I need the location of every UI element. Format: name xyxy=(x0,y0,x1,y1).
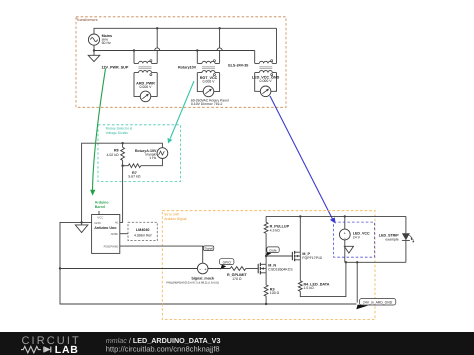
svg-text:24V_to_ARD_GND: 24V_to_ARD_GND xyxy=(363,301,393,305)
resistor R_PULLUP 4.3 kOhm xyxy=(264,216,289,256)
voltage source Signal_mock PWL xyxy=(166,263,219,284)
wire: X2 primary right terminal to top rail (hops over lower rail) xyxy=(217,27,222,63)
svg-text:Barrel: Barrel xyxy=(95,205,105,209)
resistor R4_LED_DATA 1.5 kOhm xyxy=(298,281,329,292)
annotation: green text Arduino Barrel xyxy=(95,201,110,210)
ground at Arduino GND wire xyxy=(75,221,88,232)
IC LM4040 4.096V Ref (dashed) xyxy=(120,222,158,240)
svg-text:1.5 kΩ: 1.5 kΩ xyxy=(304,286,315,290)
svg-text:LAB: LAB xyxy=(55,345,79,355)
svg-text:ELS-24V-35: ELS-24V-35 xyxy=(228,63,248,67)
svg-text:CSD18504KCS: CSD18504KCS xyxy=(268,268,293,272)
wire: X1 primary left terminal to lower rail xyxy=(133,49,135,63)
wire: LED_VCC_GND voltmeter loop on X3 secondary xyxy=(255,73,277,92)
svg-text:Voltage Divider: Voltage Divider xyxy=(106,131,130,135)
svg-text:Arduino Signal: Arduino Signal xyxy=(164,217,186,221)
svg-text:0.000 V: 0.000 V xyxy=(260,79,273,83)
svg-text:GND: GND xyxy=(94,221,100,225)
ground below Mains xyxy=(88,49,100,61)
svg-text:Transformers: Transformers xyxy=(76,18,97,22)
wire: M_P drain to R4_LED_DATA xyxy=(299,260,301,281)
enclosure box: Rotary Selector & Voltage Divider xyxy=(98,125,181,182)
svg-text:4.3 kΩ: 4.3 kΩ xyxy=(270,228,281,232)
wire: X1 primary right terminal to top rail (hops over lower rail) xyxy=(155,27,160,63)
wire: M_P source to 24V rail xyxy=(299,215,301,252)
wire: ROT_VCC voltmeter loop on X2 secondary xyxy=(197,73,219,92)
svg-text:GPIO: GPIO xyxy=(223,260,232,264)
wire: X2 primary left terminal to lower rail xyxy=(196,49,198,63)
enclosure box: 5V to 24V Arduino Signal xyxy=(162,211,375,320)
svg-text:Arduino Uno: Arduino Uno xyxy=(94,226,117,230)
voltage source V_Mains (sine 60 Hz) xyxy=(88,34,112,45)
wire: GND bus branch to Signal_mock xyxy=(60,268,197,270)
wire: Arduino GND to left bus and bottom GND rail xyxy=(59,222,357,305)
wire: ARD_PWR voltmeter loop on X1 secondary xyxy=(134,73,157,97)
svg-text:0.000 V: 0.000 V xyxy=(202,80,215,84)
wire: M_N source to R3 xyxy=(265,273,267,285)
LED D1 LED_STRIP example xyxy=(379,216,415,262)
wire: divider top rail (GND bus up) xyxy=(82,142,163,222)
svg-text:FQPF17P10: FQPF17P10 xyxy=(302,256,322,260)
wire: divider output down to Arduino A0 xyxy=(120,166,123,223)
voltage source LED_VCC 24 V xyxy=(339,215,370,240)
net flag Signal xyxy=(203,246,214,251)
wire: 24V top rail xyxy=(266,215,406,217)
resistor R_GPLIMIT 170 Ohm xyxy=(208,267,258,281)
wire: top AC rail from Mains to transformers xyxy=(94,28,277,34)
ground at LED_VCC minus xyxy=(344,240,353,262)
transformer X2 Rotary10V xyxy=(178,60,220,76)
wire: M_N drain to Gate node xyxy=(265,256,267,264)
voltmeter ARD_PWR 0.000 V xyxy=(136,82,155,102)
svg-text:170 Ω: 170 Ω xyxy=(232,277,242,281)
svg-text:4.096V Ref: 4.096V Ref xyxy=(134,233,152,237)
svg-text:24 V: 24 V xyxy=(353,235,361,239)
wire: lower AC rail from Mains xyxy=(94,45,255,50)
annotation: teal arrow ROT_VCC to RotaryA source xyxy=(168,81,195,144)
svg-text:100 Ω: 100 Ω xyxy=(270,291,280,295)
op-amp/IC U1 Arduino Uno box xyxy=(92,215,120,254)
pin VCC stub (barrel jack) xyxy=(98,211,100,215)
wire: Gate node to M_P gate xyxy=(265,255,293,257)
svg-text:Arduino: Arduino xyxy=(95,201,110,205)
svg-text:0-10V Dimmer 719-2: 0-10V Dimmer 719-2 xyxy=(191,102,223,106)
svg-text:Gate: Gate xyxy=(269,248,276,252)
footer bar xyxy=(0,332,474,355)
svg-text:5.67 kΩ: 5.67 kΩ xyxy=(128,175,141,179)
svg-text:0.000 V: 0.000 V xyxy=(139,85,152,89)
svg-text:VCC: VCC xyxy=(97,215,103,219)
svg-text:1 Hz: 1 Hz xyxy=(149,156,156,160)
svg-text:http://circuitlab.com/cnn8chkn: http://circuitlab.com/cnn8chknajjf8 xyxy=(106,344,220,353)
resistor R9 4.02 kOhm xyxy=(106,143,124,166)
svg-text:Rotary Selector &: Rotary Selector & xyxy=(106,127,133,131)
svg-text:4.02 kΩ: 4.02 kΩ xyxy=(106,153,119,157)
svg-text:Rotary10V: Rotary10V xyxy=(178,66,197,70)
svg-text:5V to 24V: 5V to 24V xyxy=(164,212,180,216)
transformer X1 12V_PWR_SUP xyxy=(101,60,157,76)
transformer X3 ELS-24V-35 xyxy=(228,60,276,76)
svg-text:LM4040: LM4040 xyxy=(136,228,150,232)
resistor R3 100 Ohm xyxy=(264,285,279,304)
svg-text:60 Hz: 60 Hz xyxy=(102,41,111,45)
wire: X3 primary left terminal from lower rail end xyxy=(254,51,256,64)
svg-text:PWL(REPEAT(0,0,4.97,5,4.98,11,: PWL(REPEAT(0,0,4.97,5,4.98,11,5.9,4.5)) xyxy=(166,280,219,284)
enclosure box: Transformers xyxy=(76,17,286,108)
voltmeter ROT_VCC 0.000 V xyxy=(200,76,218,97)
voltmeter LED_VCC_GND 0.000 V xyxy=(252,75,280,96)
enclosure box: LED_VCC supply (blue) xyxy=(334,222,375,257)
svg-text:PD3(PWM): PD3(PWM) xyxy=(104,244,119,248)
transistor M_P FQPF17P10 (PMOS) xyxy=(292,251,322,261)
note: 60-260VAC Rotary Panel 0-10V Dimmer 719-2 xyxy=(191,98,229,106)
annotation: green curved arrow 12V_PWR_SUP to Arduino barrel xyxy=(90,69,106,196)
svg-text:Signal: Signal xyxy=(204,247,213,251)
net flag GPIO xyxy=(220,259,234,270)
net flag Gate xyxy=(266,247,279,256)
wire: LED return line xyxy=(345,261,406,263)
resistor R7 5.67 kOhm xyxy=(121,159,162,179)
svg-text:example: example xyxy=(385,238,398,242)
voltage source RotaryA-10V (triangle 1 Hz) xyxy=(135,148,168,160)
wire: Arduino PD3(PWM) to Signal node xyxy=(120,246,203,263)
wire: X3 primary right terminal from top rail end xyxy=(276,28,278,63)
svg-text:AREF: AREF xyxy=(111,232,119,236)
wire: R4 bottom jog up to LED return line xyxy=(300,261,347,297)
annotation: blue arrow LED_VCC_GND to LED_VCC source xyxy=(270,96,336,224)
net flag 24V_to_ARD_GND xyxy=(356,262,396,309)
svg-text:A0: A0 xyxy=(115,221,119,225)
transistor M_N CSD18504KCS (NMOS) xyxy=(258,263,293,275)
